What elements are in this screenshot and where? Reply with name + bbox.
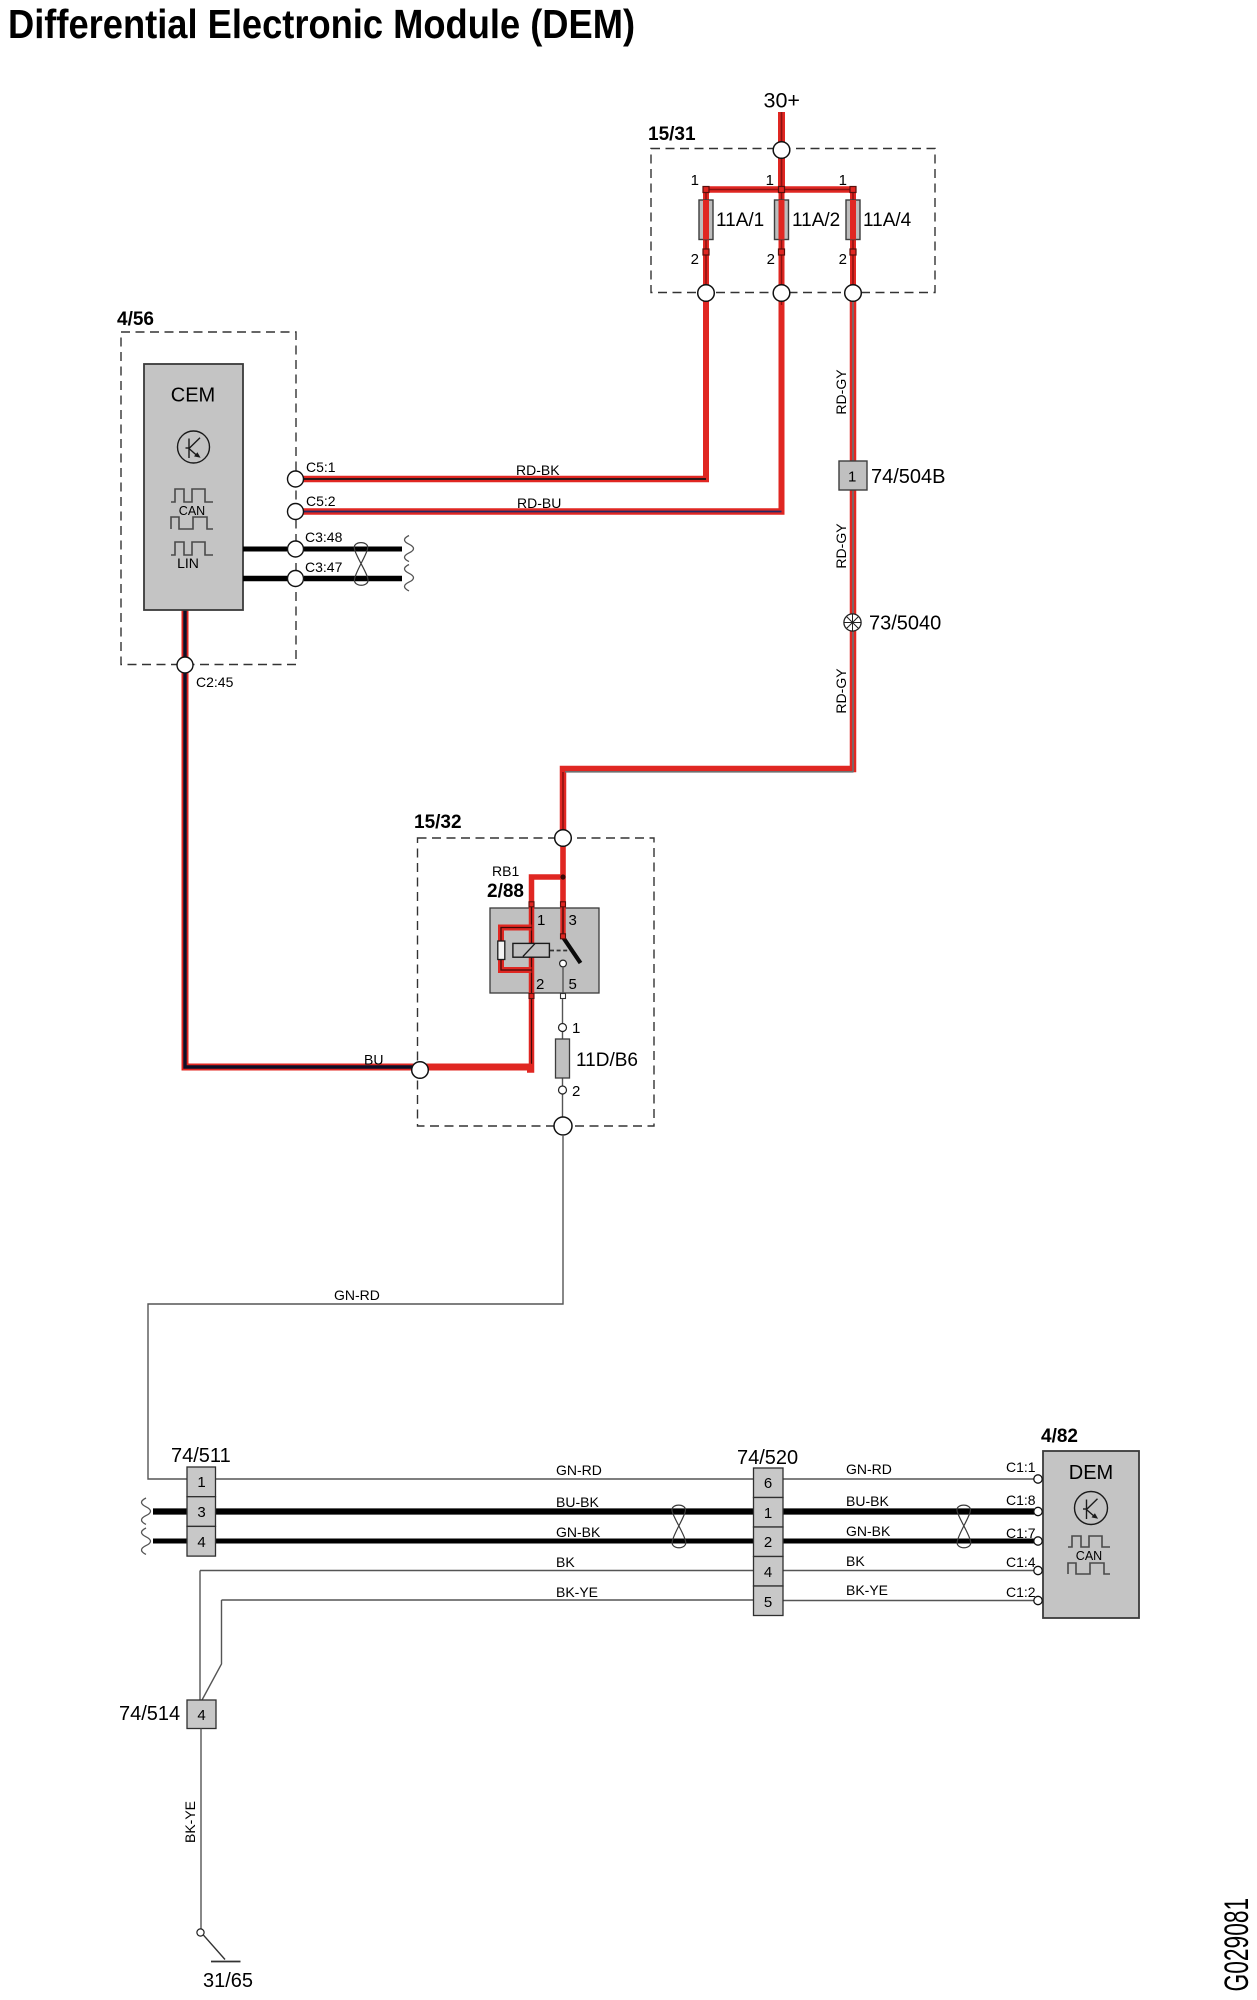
svg-text:C3:47: C3:47	[305, 559, 343, 575]
svg-text:4: 4	[197, 1707, 205, 1724]
svg-text:11A/1: 11A/1	[716, 210, 764, 231]
svg-text:4/82: 4/82	[1041, 1426, 1078, 1447]
svg-text:4: 4	[764, 1564, 772, 1581]
svg-text:CAN: CAN	[1076, 1549, 1102, 1563]
svg-text:Differential Electronic Module: Differential Electronic Module (DEM)	[8, 2, 635, 48]
svg-text:RD-GY: RD-GY	[833, 668, 849, 714]
svg-text:1: 1	[572, 1020, 580, 1037]
svg-text:C5:2: C5:2	[306, 493, 336, 509]
svg-text:1: 1	[537, 912, 545, 929]
svg-text:6: 6	[764, 1475, 772, 1492]
svg-text:4/56: 4/56	[117, 309, 154, 330]
svg-text:2: 2	[536, 976, 544, 993]
svg-text:5: 5	[569, 976, 577, 993]
svg-text:2/88: 2/88	[487, 881, 524, 902]
svg-text:5: 5	[764, 1594, 772, 1611]
svg-text:C3:48: C3:48	[305, 529, 343, 545]
svg-text:74/520: 74/520	[737, 1447, 798, 1469]
svg-text:C1:7: C1:7	[1006, 1525, 1036, 1541]
svg-text:BU-BK: BU-BK	[846, 1493, 889, 1509]
svg-text:15/32: 15/32	[414, 812, 462, 833]
svg-text:BU-BK: BU-BK	[556, 1494, 599, 1510]
svg-text:CEM: CEM	[171, 385, 215, 407]
svg-text:CAN: CAN	[179, 504, 205, 518]
svg-text:GN-BK: GN-BK	[556, 1524, 601, 1540]
svg-text:BK-YE: BK-YE	[182, 1801, 198, 1843]
svg-text:RD-BK: RD-BK	[516, 462, 560, 478]
svg-text:BU: BU	[364, 1052, 383, 1068]
svg-text:2: 2	[839, 251, 847, 268]
svg-text:1: 1	[691, 172, 699, 189]
svg-text:LIN: LIN	[177, 555, 199, 571]
svg-text:1: 1	[766, 172, 774, 189]
svg-text:BK: BK	[556, 1554, 575, 1570]
svg-text:11A/4: 11A/4	[863, 210, 912, 231]
svg-text:RD-GY: RD-GY	[833, 523, 849, 569]
svg-text:2: 2	[572, 1083, 580, 1100]
svg-text:C1:2: C1:2	[1006, 1584, 1036, 1600]
svg-text:G029081: G029081	[1219, 1898, 1257, 1992]
svg-text:31/65: 31/65	[203, 1970, 253, 1992]
svg-text:3: 3	[569, 912, 577, 929]
svg-text:73/5040: 73/5040	[869, 613, 941, 635]
svg-text:RB1: RB1	[492, 863, 519, 879]
svg-text:1: 1	[764, 1505, 772, 1522]
svg-text:GN-RD: GN-RD	[846, 1461, 892, 1477]
svg-text:GN-BK: GN-BK	[846, 1523, 891, 1539]
svg-text:C1:4: C1:4	[1006, 1554, 1036, 1570]
svg-text:3: 3	[197, 1504, 205, 1521]
svg-text:11D/B6: 11D/B6	[576, 1050, 638, 1071]
svg-text:GN-RD: GN-RD	[556, 1462, 602, 1478]
svg-text:C5:1: C5:1	[306, 459, 336, 475]
svg-text:11A/2: 11A/2	[792, 210, 840, 231]
svg-text:C2:45: C2:45	[196, 674, 234, 690]
svg-text:BK: BK	[846, 1553, 865, 1569]
svg-text:DEM: DEM	[1069, 1462, 1113, 1484]
svg-text:2: 2	[764, 1534, 772, 1551]
svg-text:BK-YE: BK-YE	[556, 1584, 598, 1600]
svg-text:GN-RD: GN-RD	[334, 1287, 380, 1303]
svg-text:BK-YE: BK-YE	[846, 1582, 888, 1598]
svg-text:RD-BU: RD-BU	[517, 495, 561, 511]
svg-text:C1:8: C1:8	[1006, 1492, 1036, 1508]
svg-text:4: 4	[197, 1534, 205, 1551]
svg-text:RD-GY: RD-GY	[833, 369, 849, 415]
svg-text:C1:1: C1:1	[1006, 1459, 1036, 1475]
svg-text:74/511: 74/511	[171, 1445, 231, 1467]
svg-text:15/31: 15/31	[648, 124, 696, 145]
svg-text:30+: 30+	[764, 89, 800, 113]
svg-text:1: 1	[848, 469, 856, 486]
svg-text:1: 1	[839, 172, 847, 189]
svg-text:2: 2	[767, 251, 775, 268]
svg-text:1: 1	[197, 1474, 205, 1491]
svg-text:2: 2	[691, 251, 699, 268]
svg-text:74/504B: 74/504B	[871, 466, 946, 488]
svg-text:74/514: 74/514	[119, 1703, 180, 1725]
